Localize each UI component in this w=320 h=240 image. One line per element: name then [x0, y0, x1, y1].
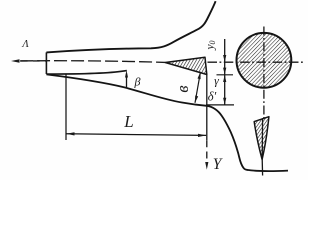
L dimension line	[66, 134, 206, 136]
beam bottom edge	[46, 71, 126, 74]
svg-text:γ: γ	[214, 74, 219, 88]
velocity arrow head	[11, 59, 20, 63]
L extension line	[65, 74, 67, 141]
tool wedge (hatched)	[165, 57, 207, 74]
beam left edge	[45, 52, 47, 74]
velocity arrow dashed shaft	[21, 60, 46, 62]
dimension stack vertical line (y0, gamma, delta)	[224, 39, 226, 105]
beam dashed centerline	[20, 61, 165, 63]
svg-text:в: в	[173, 85, 192, 92]
svg-text:Y: Y	[213, 156, 223, 173]
tick at deflection level	[206, 104, 234, 106]
svg-text:у0: у0	[205, 40, 217, 50]
svg-text:δ′: δ′	[208, 90, 217, 104]
cone pointer (hatched)	[254, 117, 269, 160]
horizontal dash-dot centerline through roller	[208, 61, 305, 63]
svg-text:Λ: Λ	[21, 39, 29, 50]
deflected beam line (angle beta) sweeping to bottom right	[46, 74, 247, 169]
beam top edge curling up (chip curve)	[46, 1, 215, 52]
vertical dash-dot centerline through roller and cone	[263, 27, 265, 119]
angle beta arrow	[126, 74, 128, 89]
roller circle (hatched)	[237, 33, 292, 88]
vertical Y line from wedge corner (solid then dashed)	[206, 75, 208, 141]
dimension b (в) from wedge underside to deflected line	[195, 72, 201, 103]
ground line at bottom	[247, 170, 288, 171]
svg-text:β: β	[134, 75, 141, 89]
tick at gamma level	[217, 74, 234, 76]
svg-text:L: L	[123, 112, 133, 131]
